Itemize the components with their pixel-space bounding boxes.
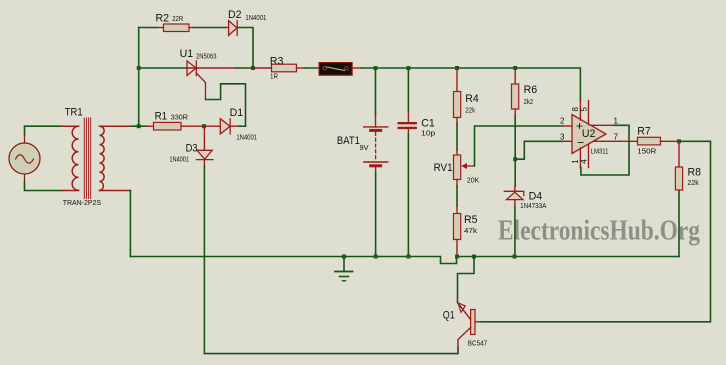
wire: junction right and down to Q1 collector [481, 141, 711, 321]
junction [251, 66, 255, 70]
svg-text:TR1: TR1 [65, 106, 83, 118]
wire: R8 bottom to rail end [678, 190, 680, 192]
svg-text:LM311: LM311 [591, 147, 609, 156]
wire: U1 anode row [139, 67, 187, 69]
wire: node down to D4 [514, 159, 516, 186]
battery BAT1 [364, 127, 388, 166]
svg-text:R8: R8 [688, 167, 702, 179]
transistor Q1 [458, 303, 482, 349]
wire: switch right lead [352, 67, 361, 69]
junction [472, 255, 476, 259]
wire: D3 anode stub [203, 160, 205, 167]
svg-text:4: 4 [580, 159, 589, 164]
svg-text:R1: R1 [155, 111, 168, 123]
collector lead [475, 321, 481, 323]
wire: R6 top lead [514, 68, 516, 84]
wire: R4 to RV1 [456, 118, 458, 124]
zener D4 [504, 191, 524, 199]
svg-text:R2: R2 [156, 13, 170, 25]
junction [374, 66, 378, 70]
pin 1 stub [591, 124, 615, 126]
wire: R1 row from junction [139, 125, 147, 127]
primary stub bottom [62, 190, 79, 192]
resistor R4 [454, 92, 461, 118]
svg-text:22R: 22R [172, 14, 183, 23]
svg-text:22k: 22k [688, 178, 699, 187]
resistor R6 [512, 84, 519, 109]
resistor R5 [454, 214, 461, 240]
svg-text:7: 7 [614, 133, 619, 142]
wire: R7 to junction [661, 140, 680, 142]
wire: junction down to D3 [203, 126, 205, 159]
wire: C1 top lead [407, 68, 409, 112]
secondary stub top [100, 125, 132, 127]
primary stub top [62, 125, 79, 127]
primary winding [72, 126, 78, 190]
pin 1b stub [579, 148, 581, 168]
gate lead [196, 73, 205, 100]
svg-text:R3: R3 [270, 56, 284, 68]
wire: RV1 to R5 [456, 180, 458, 187]
wire: AC source top to transformer primary top [25, 126, 63, 135]
svg-text:150R: 150R [637, 146, 657, 155]
svg-text:U1: U1 [180, 48, 194, 60]
svg-text:1: 1 [614, 117, 619, 126]
junction [342, 255, 346, 259]
wire: R4 top lead [456, 68, 458, 92]
svg-text:R6: R6 [524, 84, 538, 96]
junction [137, 124, 141, 128]
wire: U2 pin1 to pin4 loop [581, 125, 629, 175]
svg-text:5: 5 [580, 106, 589, 111]
junction [677, 139, 681, 143]
wire: D4 anode to rail [514, 200, 516, 207]
svg-text:2k2: 2k2 [524, 97, 534, 106]
core [84, 118, 90, 199]
wire: secondary top to left vertical [131, 125, 139, 127]
AC source [9, 143, 40, 174]
svg-text:47k: 47k [464, 226, 477, 235]
wire: node to U2 pin3 [515, 141, 563, 159]
wire: D2 to down corner into U1 row [237, 28, 253, 69]
junction [513, 66, 517, 70]
wire: left vertical riser [138, 28, 140, 127]
junction [455, 255, 459, 259]
svg-text:9V: 9V [360, 143, 370, 152]
base arrow lead [458, 303, 471, 320]
wire: junction down to R8 [678, 141, 680, 167]
wire: top row to R2 [139, 27, 157, 29]
resistor R7 [638, 137, 661, 145]
svg-text:1N4001: 1N4001 [245, 13, 266, 22]
svg-text:R4: R4 [465, 93, 479, 105]
resistor R1 [154, 122, 182, 130]
svg-text:2: 2 [560, 117, 565, 126]
svg-text:1N4001: 1N4001 [236, 132, 257, 141]
wire: Q1 emitter to bottom run to D3 [204, 167, 458, 354]
wire: U1 cathode to junction [187, 67, 237, 69]
svg-text:TRAN-2P2S: TRAN-2P2S [63, 200, 102, 207]
wire: R3 to switch [297, 67, 305, 69]
wire: R6 bottom lead to node [514, 109, 516, 116]
emitter lead [458, 328, 471, 349]
svg-text:10p: 10p [421, 129, 435, 138]
junction [406, 66, 410, 70]
wire: junction to R3 [253, 67, 272, 69]
pin 8 stub [579, 101, 581, 121]
junction [374, 255, 378, 259]
junction [513, 255, 517, 259]
op-amp U2 [563, 101, 620, 168]
wire: AC source bottom to transformer primary bottom [24, 174, 26, 183]
junction [455, 66, 459, 70]
switch [319, 63, 352, 76]
wire: D1 cathode to staircase [230, 125, 239, 127]
svg-text:R5: R5 [464, 214, 478, 226]
wire: switch to U2 pin8 top rail [361, 68, 580, 101]
transformer TR1 [62, 118, 131, 199]
pin 5 stub [588, 101, 590, 125]
svg-text:RV1: RV1 [434, 162, 453, 174]
ground [335, 257, 353, 281]
potentiometer RV1 [454, 155, 475, 180]
pin 2 stub [563, 125, 572, 127]
svg-text:20K: 20K [467, 175, 479, 184]
svg-text:R7: R7 [637, 125, 651, 137]
resistor R8 [675, 167, 682, 190]
wire: battery top lead [375, 68, 377, 115]
resistor R3 [272, 64, 297, 72]
wire: R1 to D1 [181, 125, 230, 127]
svg-text:2N5063: 2N5063 [196, 52, 217, 61]
svg-text:U2: U2 [582, 128, 596, 140]
junction [406, 255, 410, 259]
diode D2 [229, 21, 238, 36]
svg-text:BC547: BC547 [468, 339, 487, 348]
secondary stub bottom [100, 190, 131, 192]
svg-text:1N4733A: 1N4733A [520, 201, 547, 210]
svg-text:BAT1: BAT1 [337, 135, 360, 147]
wire: RV1 wiper to U2 pin2 [475, 126, 564, 166]
wire: R2 to D2 [189, 27, 194, 29]
diode D3 [197, 150, 214, 159]
wire: gate staircase to D1 cathode [206, 84, 246, 126]
wire: battery bottom lead to rail [375, 166, 377, 173]
pin 3 stub [563, 140, 572, 142]
svg-text:ElectronicsHub.Org: ElectronicsHub.Org [498, 216, 700, 247]
resistor R2 [164, 24, 190, 32]
junction [513, 157, 517, 161]
junction [202, 124, 206, 128]
wire: C1 bottom lead to rail [407, 128, 409, 135]
wire: secondary bottom corner down [129, 191, 131, 257]
capacitor C1 [399, 123, 416, 128]
svg-text:Q1: Q1 [443, 310, 455, 322]
junction [137, 66, 141, 70]
pin 4 stub [588, 144, 590, 168]
svg-text:D1: D1 [230, 107, 244, 119]
svg-text:1R: 1R [270, 71, 278, 80]
svg-text:330R: 330R [171, 113, 189, 122]
SCR U1 [187, 61, 206, 100]
wire: rail main [130, 257, 679, 264]
svg-text:22k: 22k [465, 106, 475, 115]
svg-text:3: 3 [560, 133, 565, 142]
wire: R5 bottom lead [456, 240, 458, 257]
pin 7 stub [594, 140, 620, 142]
secondary winding [100, 126, 105, 190]
svg-text:D3: D3 [186, 143, 198, 155]
diode D1 [220, 119, 230, 134]
wire: U2 pin7 to R7 [620, 140, 638, 142]
svg-text:1N4001: 1N4001 [169, 155, 189, 164]
svg-text:D2: D2 [228, 9, 242, 21]
wire: rail to Q1 base [458, 257, 475, 303]
